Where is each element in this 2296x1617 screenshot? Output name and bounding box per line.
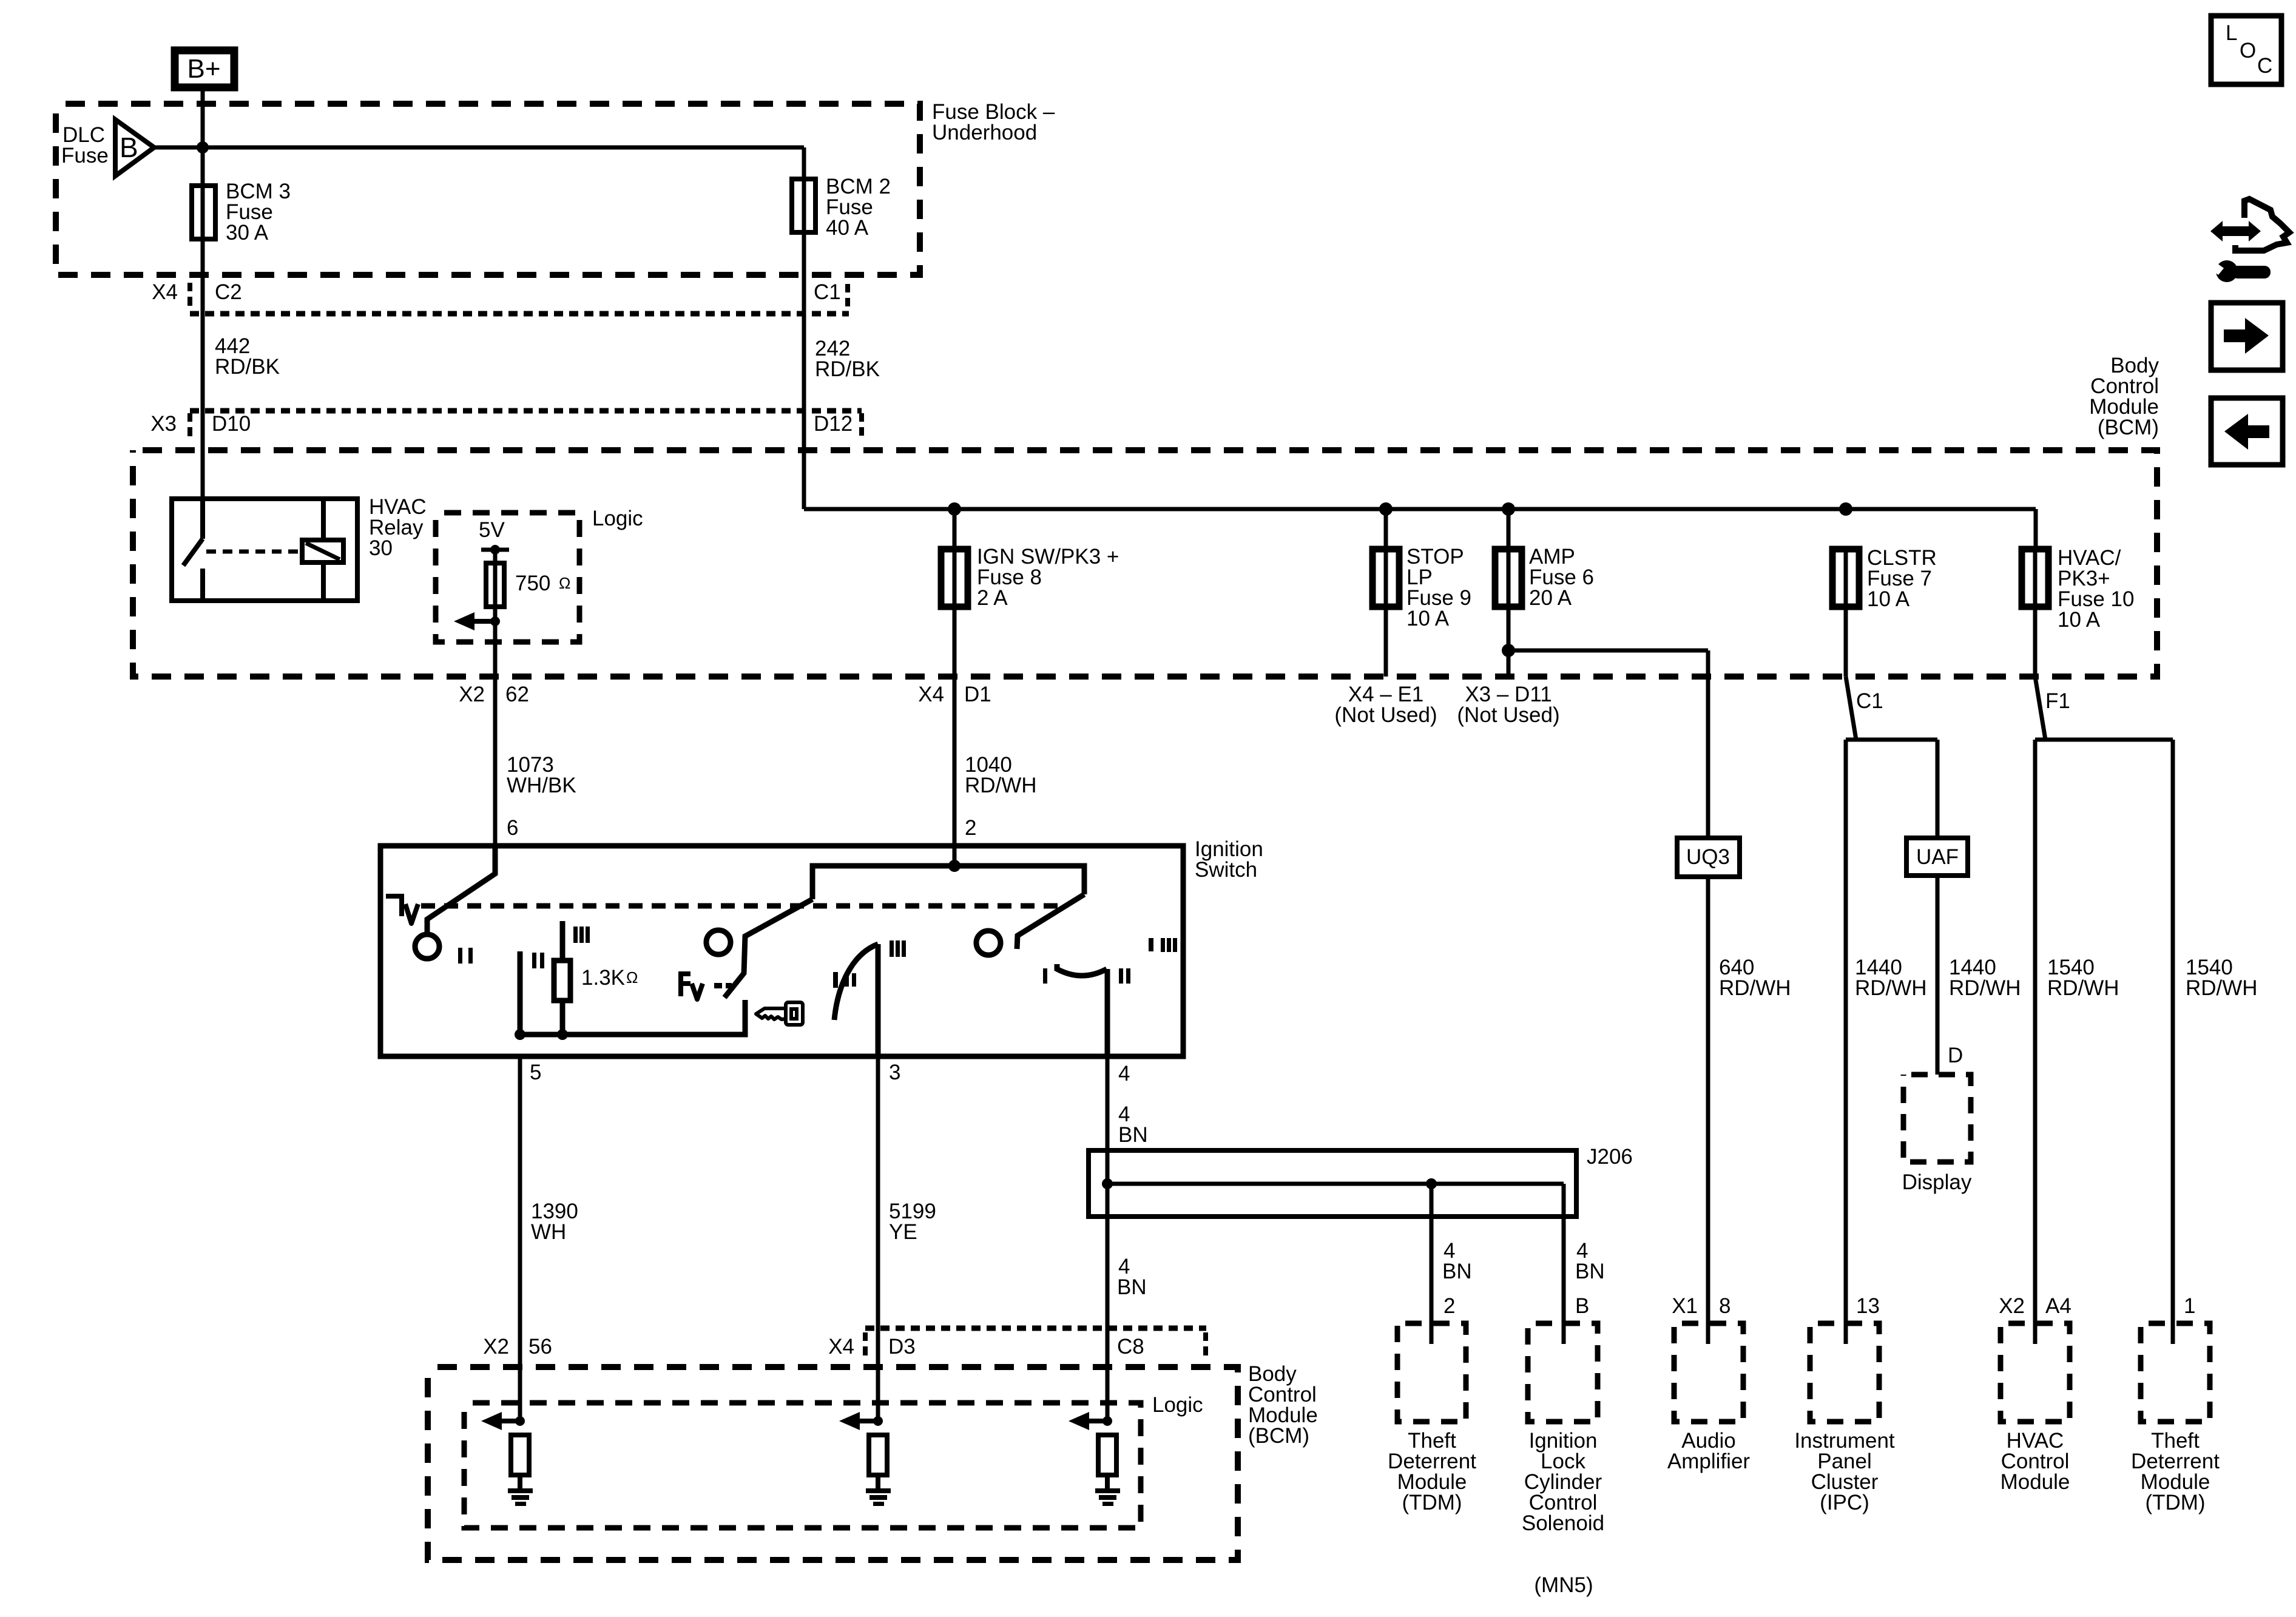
svg-text:5V: 5V — [479, 518, 505, 542]
svg-text:D3: D3 — [888, 1335, 916, 1359]
svg-text:750: 750 — [515, 572, 550, 595]
svg-text:UAF: UAF — [1916, 845, 1959, 869]
svg-text:Ω: Ω — [626, 968, 638, 987]
svg-text:BN: BN — [1117, 1275, 1147, 1299]
svg-text:X2: X2 — [1999, 1294, 2025, 1318]
svg-text:Switch: Switch — [1195, 858, 1257, 882]
svg-text:2 A: 2 A — [977, 586, 1008, 610]
svg-text:13: 13 — [1856, 1294, 1880, 1318]
svg-text:X4: X4 — [918, 683, 944, 706]
svg-text:5: 5 — [530, 1061, 541, 1084]
svg-text:56: 56 — [528, 1335, 552, 1359]
svg-text:Underhood: Underhood — [932, 121, 1037, 144]
svg-text:C1: C1 — [1856, 689, 1883, 713]
svg-text:D: D — [1948, 1044, 1963, 1067]
svg-text:10 A: 10 A — [2058, 608, 2101, 632]
svg-text:6: 6 — [507, 816, 518, 840]
svg-text:Fuse: Fuse — [61, 144, 109, 167]
svg-text:RD/WH: RD/WH — [1855, 976, 1927, 1000]
svg-text:Display: Display — [1902, 1170, 1972, 1194]
svg-text:62: 62 — [505, 683, 529, 706]
svg-text:B: B — [120, 132, 138, 163]
svg-text:RD/WH: RD/WH — [1949, 976, 2021, 1000]
svg-text:2: 2 — [965, 816, 976, 840]
svg-text:Logic: Logic — [592, 507, 643, 530]
svg-text:BN: BN — [1442, 1260, 1472, 1283]
svg-text:BN: BN — [1575, 1260, 1605, 1283]
svg-text:(TDM): (TDM) — [1402, 1491, 1462, 1514]
svg-text:F1: F1 — [2045, 689, 2070, 713]
svg-text:J206: J206 — [1587, 1145, 1633, 1169]
svg-text:A4: A4 — [2045, 1294, 2071, 1318]
svg-text:20 A: 20 A — [1529, 586, 1572, 610]
svg-text:RD/WH: RD/WH — [2047, 976, 2119, 1000]
svg-text:Solenoid: Solenoid — [1522, 1511, 1604, 1535]
svg-text:C: C — [2257, 54, 2272, 78]
svg-text:(Not Used): (Not Used) — [1334, 703, 1437, 727]
svg-text:O: O — [2240, 39, 2256, 62]
svg-text:Amplifier: Amplifier — [1667, 1450, 1750, 1473]
svg-text:C1: C1 — [814, 280, 841, 304]
svg-text:C8: C8 — [1117, 1335, 1144, 1359]
svg-text:X2: X2 — [459, 683, 485, 706]
svg-text:RD/BK: RD/BK — [815, 357, 880, 381]
svg-text:X3: X3 — [150, 412, 177, 436]
svg-text:3: 3 — [889, 1061, 900, 1084]
svg-text:WH: WH — [531, 1220, 566, 1244]
svg-text:B: B — [1575, 1294, 1589, 1318]
svg-text:30: 30 — [369, 536, 393, 560]
svg-text:Ω: Ω — [559, 574, 570, 592]
svg-text:1.3K: 1.3K — [581, 966, 625, 990]
svg-text:1: 1 — [2184, 1294, 2195, 1318]
svg-text:(BCM): (BCM) — [1248, 1424, 1309, 1448]
svg-text:10 A: 10 A — [1867, 587, 1910, 611]
svg-text:(BCM): (BCM) — [2098, 416, 2159, 439]
svg-text:4: 4 — [1118, 1062, 1130, 1085]
svg-text:B+: B+ — [187, 54, 220, 84]
svg-text:2: 2 — [1443, 1294, 1455, 1318]
svg-text:BN: BN — [1118, 1123, 1148, 1147]
svg-text:D12: D12 — [814, 412, 853, 436]
svg-text:WH/BK: WH/BK — [507, 774, 576, 797]
svg-text:UQ3: UQ3 — [1686, 845, 1730, 869]
svg-text:X4: X4 — [828, 1335, 854, 1359]
svg-text:X2: X2 — [483, 1335, 509, 1359]
svg-text:(IPC): (IPC) — [1820, 1491, 1869, 1514]
svg-text:C2: C2 — [215, 280, 242, 304]
svg-text:RD/WH: RD/WH — [1719, 976, 1791, 1000]
svg-text:40 A: 40 A — [826, 216, 869, 240]
svg-text:(Not Used): (Not Used) — [1457, 703, 1559, 727]
svg-text:8: 8 — [1719, 1294, 1730, 1318]
svg-text:(MN5): (MN5) — [1534, 1573, 1593, 1597]
svg-text:Logic: Logic — [1152, 1393, 1203, 1417]
svg-text:X1: X1 — [1672, 1294, 1698, 1318]
svg-text:30 A: 30 A — [226, 221, 269, 245]
svg-text:RD/WH: RD/WH — [2186, 976, 2258, 1000]
svg-text:D1: D1 — [964, 683, 991, 706]
svg-text:Module: Module — [2001, 1470, 2070, 1494]
svg-text:X4: X4 — [152, 280, 178, 304]
svg-text:10 A: 10 A — [1406, 607, 1450, 630]
svg-text:D10: D10 — [212, 412, 251, 436]
svg-text:L: L — [2226, 21, 2237, 45]
svg-text:(TDM): (TDM) — [2145, 1491, 2205, 1514]
svg-text:YE: YE — [889, 1220, 917, 1244]
svg-text:RD/BK: RD/BK — [215, 355, 280, 379]
svg-text:RD/WH: RD/WH — [965, 774, 1037, 797]
